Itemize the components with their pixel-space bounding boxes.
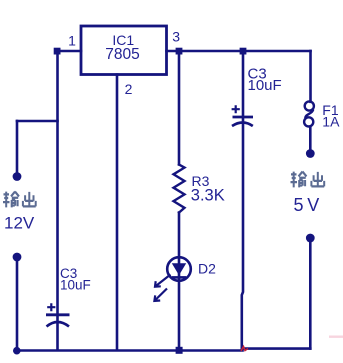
wire input top terminal drop (16, 121, 19, 173)
svg-text:10uF: 10uF (248, 77, 282, 94)
node input terminal top (13, 172, 22, 181)
capacitor C3 right symbol (232, 105, 253, 126)
svg-text:10uF: 10uF (60, 278, 91, 293)
svg-text:3.3K: 3.3K (191, 187, 225, 205)
svg-text:2: 2 (125, 81, 133, 97)
wire input bottom vertical (16, 260, 19, 351)
wire right C3 vertical (242, 51, 243, 349)
svg-text:5: 5 (294, 195, 304, 215)
op-amp-regulator IC1 7805 box (81, 26, 167, 75)
node bus left junction (13, 347, 21, 355)
node bus right red artifact (241, 347, 248, 352)
node input terminal bottom (13, 253, 22, 262)
wire pin1 horizontal (57, 50, 81, 53)
node junction dot pin1 (54, 48, 61, 55)
wire pin3 to R3 (178, 51, 181, 165)
capacitor C3 left symbol (46, 303, 70, 326)
label shuchu left (输出) (3, 192, 36, 208)
svg-text:3: 3 (172, 29, 180, 45)
wire fuse to output terminal (309, 128, 312, 151)
fuse F1 (304, 101, 314, 126)
svg-text:D2: D2 (198, 260, 216, 276)
svg-text:12V: 12V (4, 214, 35, 233)
artifact pink smudge (329, 336, 343, 338)
node junction dot right C3 top (240, 48, 247, 55)
wire R3 to LED to bus (178, 213, 181, 350)
node output terminal bottom (306, 234, 315, 243)
node output terminal top (306, 149, 315, 158)
wire pin2 vertical (116, 75, 119, 351)
wire ground bus left (17, 349, 243, 352)
wire left vertical through C3 (56, 51, 59, 350)
wire fuse drop (309, 51, 312, 102)
node junction dot pin3 (176, 48, 183, 55)
svg-text:1A: 1A (322, 113, 340, 129)
label shuchu right (输出) (291, 172, 325, 188)
node bus LED junction (176, 347, 183, 354)
wire ground bus right (243, 347, 311, 350)
wire pin3 horizontal to fuse corner (167, 50, 311, 53)
resistor R3 zigzag (174, 165, 185, 213)
wire input branch horizontal (17, 120, 58, 123)
wire output bottom vertical (309, 242, 312, 349)
svg-text:7805: 7805 (105, 46, 139, 63)
LED D2 (154, 257, 190, 301)
svg-text:1: 1 (68, 33, 76, 49)
svg-text:V: V (307, 195, 319, 215)
